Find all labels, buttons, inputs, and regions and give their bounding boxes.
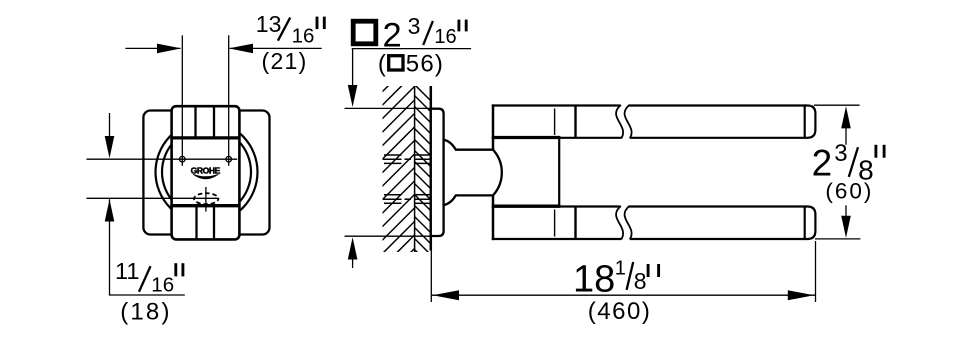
mount stem + knob — [444, 140, 502, 205]
oval slot (dashed) — [194, 193, 218, 204]
dim 11/16: upper shaft — [109, 113, 111, 140]
oval vertical centerline — [205, 187, 207, 212]
dim square56: leader line — [352, 48, 471, 50]
top arm sleeve end — [574, 106, 576, 138]
svg-text:8: 8 — [634, 268, 647, 294]
svg-text:16: 16 — [434, 26, 456, 48]
bottom arm cap joint — [804, 207, 806, 240]
bottom arm end cap — [805, 207, 816, 240]
wall inner line — [414, 86, 416, 252]
dim 13/16: extension line right (through right screw) — [228, 35, 230, 165]
bar band (front view, vertical) — [172, 106, 240, 239]
svg-text:16: 16 — [151, 273, 174, 296]
svg-text:13: 13 — [256, 11, 282, 37]
svg-text:11: 11 — [115, 258, 139, 284]
pivot block right edge — [558, 138, 560, 207]
assembly left edge lower — [492, 195, 495, 240]
band inner line left-top — [194, 107, 196, 138]
GROHE logo swoosh — [193, 174, 218, 179]
svg-text:(60): (60) — [825, 178, 873, 203]
svg-text:(21): (21) — [262, 48, 308, 74]
dim square56: down arrow — [348, 85, 358, 107]
pivot block top edge (thick) — [492, 136, 561, 139]
dim 11/16: lower shaft + leader — [110, 199, 185, 295]
dim 18 1/8: right arrow — [788, 290, 814, 300]
svg-text:(: ( — [378, 50, 386, 77]
dim 13/16: right arrow (points left) — [229, 44, 253, 54]
dim 18 1/8: left extension line — [430, 244, 432, 302]
dim 18 1/8: left arrow — [433, 290, 459, 300]
band inner line right-bottom — [213, 206, 215, 239]
dim 2 3/8: top extension line — [814, 104, 860, 106]
dim 13/16: left dim line — [125, 47, 180, 49]
dim 18 1/8: right extension line — [815, 241, 817, 302]
svg-text:18: 18 — [573, 258, 615, 300]
dim 2 3/8: bottom extension line — [815, 238, 860, 240]
dim square56: lower shaft — [352, 255, 354, 268]
escutcheon inner circle — [162, 128, 251, 217]
top arm tick — [554, 109, 556, 136]
bottom arm edges — [492, 207, 806, 240]
screw 2 (side, lower) — [383, 195, 432, 204]
assembly left edge upper — [492, 104, 495, 149]
dim 11/16: extension line lower (through oval) — [87, 197, 219, 199]
dim square56: up arrow — [348, 237, 358, 259]
dim 2 3/8: upper shaft — [845, 125, 847, 145]
screw hole left — [180, 156, 186, 162]
wall plate (side view) — [431, 109, 444, 236]
dim 2 3/8: up arrow — [841, 106, 851, 128]
svg-text:3: 3 — [834, 140, 847, 167]
wall plate square (front view) — [143, 111, 269, 235]
band inner line right-top — [213, 107, 215, 138]
escutcheon outer circle — [156, 121, 258, 223]
svg-text:1: 1 — [615, 258, 626, 280]
bottom arm tick — [554, 210, 556, 237]
bottom arm break squiggles — [616, 206, 623, 240]
bottom arm sleeve end — [574, 207, 576, 240]
dim 13/16: extension line left (through left screw) — [181, 35, 183, 165]
pivot block bottom edge (thick) — [492, 205, 561, 208]
svg-text:(460): (460) — [588, 298, 652, 325]
svg-text:56): 56) — [406, 50, 444, 77]
wall hatch left zone — [216, 80, 597, 258]
dim 13/16: right dim line — [230, 47, 322, 49]
screw 1 (side, upper) — [383, 155, 432, 163]
dim 2 3/8: lower shaft — [845, 205, 847, 220]
dim 11/16: up arrow — [105, 199, 115, 221]
svg-text:3: 3 — [408, 13, 421, 39]
dim square56: upper shaft — [352, 49, 354, 88]
dim 2 3/8: down arrow — [841, 216, 851, 238]
top arm end cap — [805, 106, 816, 138]
dim 11/16: down arrow — [105, 136, 115, 158]
dim 13/16: left arrow (points right) — [157, 44, 181, 54]
dim 18 1/8: dim line — [431, 294, 815, 296]
svg-text:GROHE: GROHE — [191, 166, 221, 176]
dim square56: top extension line — [345, 107, 432, 109]
svg-text:16: 16 — [292, 25, 315, 48]
plate face top edge (thick) — [170, 136, 240, 139]
band inner line left-bottom — [195, 206, 197, 239]
top arm left/top/bottom edges — [492, 106, 806, 138]
svg-text:(18): (18) — [120, 298, 171, 325]
dim square56: bold square symbol — [353, 21, 376, 44]
plate face bottom edge (thick) — [170, 204, 240, 207]
wall surface line — [430, 86, 433, 251]
dim square56: bottom extension line — [345, 235, 432, 237]
screw hole right — [226, 156, 232, 162]
top arm cap joint — [804, 106, 806, 138]
dim 11/16: extension line upper (through screw holes) — [87, 158, 238, 160]
top arm break squiggles — [616, 105, 623, 138]
wall hatch inner zone — [408, 78, 440, 275]
